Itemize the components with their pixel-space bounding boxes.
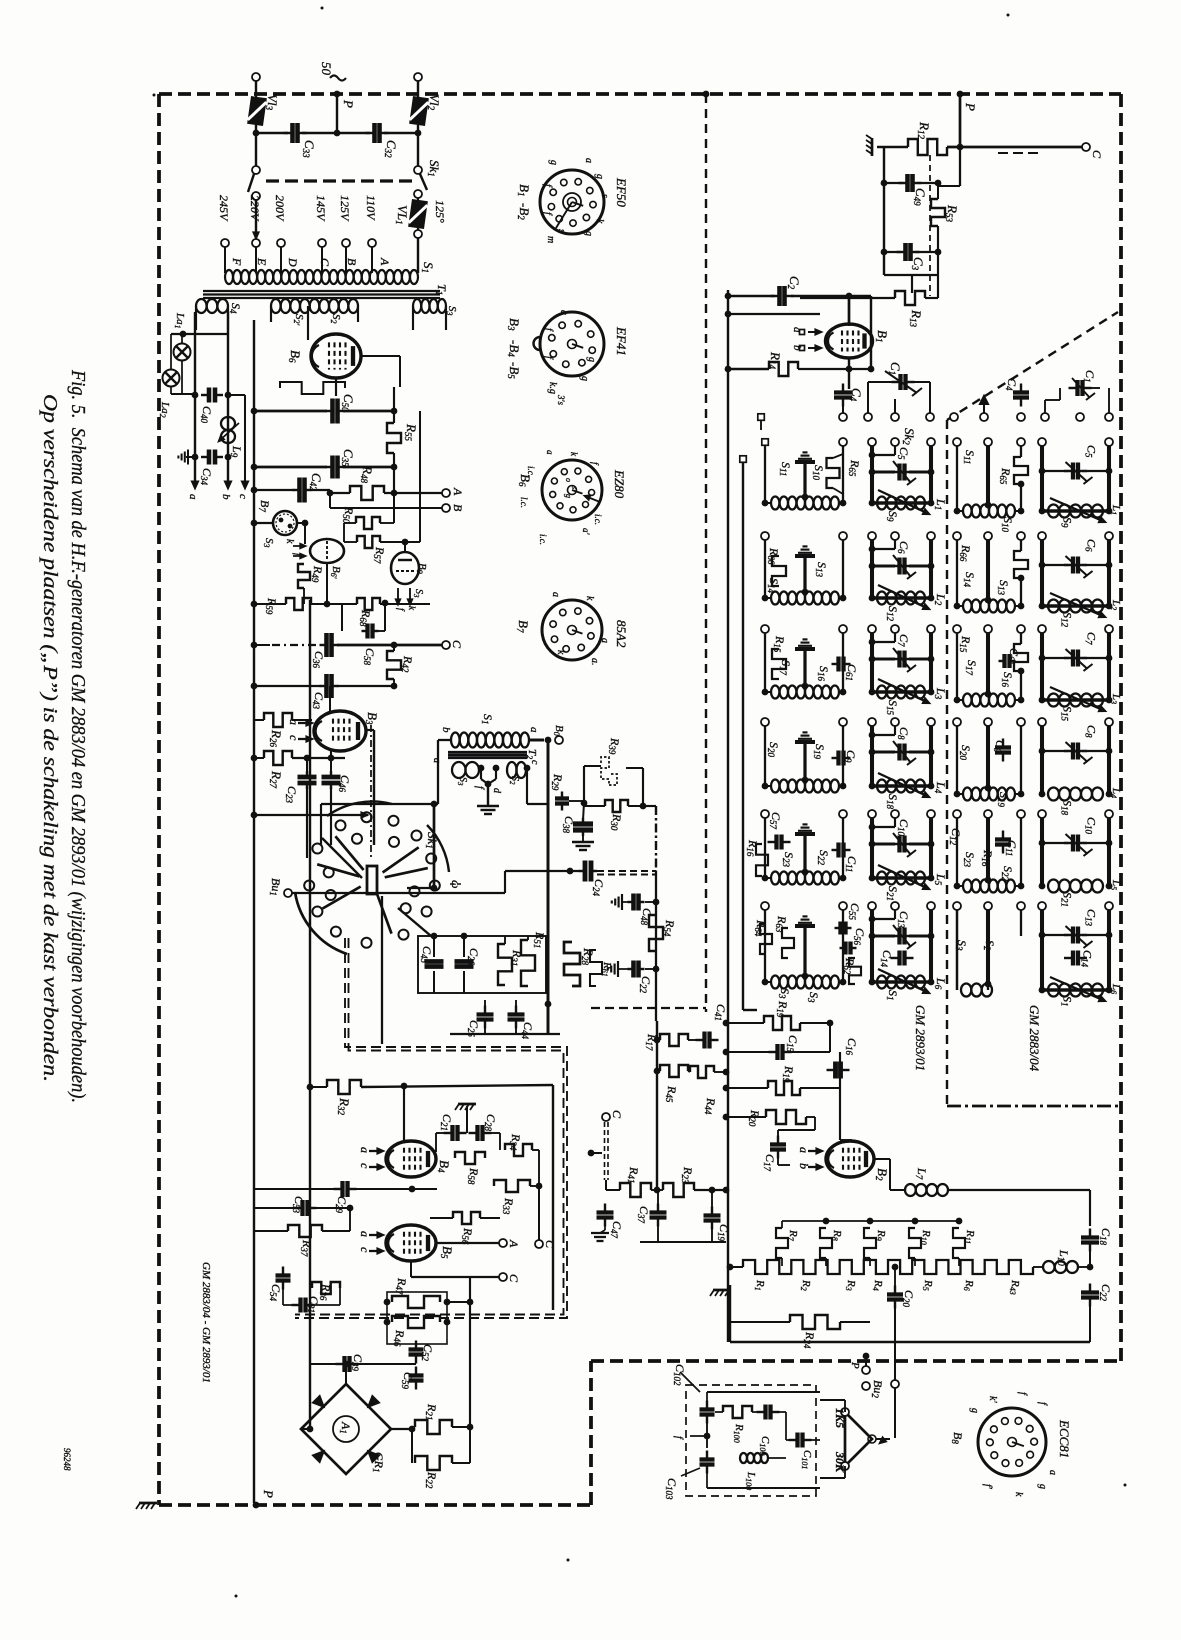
svg-text:a: a [287,719,301,725]
svg-text:a: a [431,758,442,763]
svg-text:125V: 125V [338,195,352,222]
svg-text:s: s [599,194,610,198]
svg-text:a: a [791,327,803,333]
svg-text:b: b [797,1163,811,1169]
svg-text:k: k [584,596,595,601]
svg-text:a: a [797,1147,811,1153]
svg-text:g: g [594,174,605,179]
svg-text:C: C [543,1240,557,1249]
svg-text:ECC81: ECC81 [1057,1419,1072,1458]
svg-text:C: C [610,1110,624,1119]
svg-text:50: 50 [319,62,334,76]
svg-text:C: C [450,640,464,649]
svg-text:k: k [1013,1492,1024,1497]
svg-text:g: g [548,160,559,165]
svg-text:a: a [545,450,555,455]
svg-text:o: o [564,478,573,482]
svg-text:i.c.: i.c. [593,514,603,525]
svg-text:85A2: 85A2 [614,620,629,648]
svg-text:P: P [341,99,356,108]
svg-text:c: c [237,494,249,499]
svg-text:P: P [261,1489,276,1498]
svg-text:C: C [1090,150,1104,159]
svg-text:96248: 96248 [62,1448,72,1471]
svg-text:c: c [358,1247,372,1253]
svg-text:GM 2893/01: GM 2893/01 [913,1005,928,1071]
svg-text:GM 2883/04 - GM 2893/01: GM 2883/04 - GM 2893/01 [200,1262,212,1383]
svg-text:c: c [358,1163,372,1169]
svg-text:a′: a′ [581,528,591,536]
svg-text:b: b [440,727,452,733]
svg-text:b: b [791,345,803,351]
svg-text:P: P [963,102,978,111]
svg-text:b: b [220,494,232,500]
svg-text:a: a [528,727,540,733]
svg-text:220V: 220V [248,195,262,222]
svg-text:B: B [451,504,465,512]
svg-text:a: a [599,638,610,643]
svg-text:s: s [556,229,567,233]
svg-text:a: a [1047,1470,1058,1475]
svg-text:c: c [529,760,540,765]
svg-text:a: a [558,310,569,315]
svg-text:D: D [286,257,300,267]
svg-text:g: g [969,1408,980,1413]
svg-text:EZ80: EZ80 [612,469,627,499]
svg-text:A: A [507,1239,521,1248]
svg-text:3′s: 3′s [556,394,566,405]
svg-text:EF50: EF50 [614,177,629,207]
svg-text:l.c.: l.c. [519,497,529,508]
svg-text:k: k [555,650,566,655]
svg-text:a: a [187,494,199,500]
svg-text:A: A [451,487,465,496]
svg-text:a: a [583,158,594,163]
svg-text:g: g [564,494,573,498]
svg-text:E: E [255,257,269,266]
svg-text:a: a [358,1231,372,1237]
svg-text:f′: f′ [982,1484,993,1490]
svg-text:a: a [358,1147,372,1153]
svg-text:C: C [507,1274,521,1283]
svg-text:k′: k′ [987,1396,998,1403]
svg-text:245V: 245V [217,195,231,222]
svg-text:125°: 125° [433,200,447,223]
svg-text:i.c.: i.c. [538,534,548,545]
svg-text:a.: a. [589,658,600,666]
svg-text:k.g: k.g [547,382,558,394]
svg-text:m: m [545,236,556,243]
svg-text:200V: 200V [273,195,287,222]
svg-text:c: c [287,735,301,741]
svg-text:k: k [594,219,605,224]
svg-text:Op verscheidene plaatsen („P”): Op verscheidene plaatsen („P”) is de sch… [39,394,61,1082]
svg-text:C: C [318,258,332,267]
svg-text:g: g [1037,1484,1048,1489]
svg-text:110V: 110V [364,195,378,221]
svg-text:P: P [849,1361,861,1369]
svg-text:F: F [230,257,244,266]
svg-text:s: s [570,486,579,489]
svg-text:Fig. 5. Schema van de H.F.-ge: Fig. 5. Schema van de H.F.-generatoren G… [67,369,89,1103]
svg-text:B: B [345,258,359,266]
svg-text:EF41: EF41 [614,326,629,356]
svg-text:g: g [586,357,597,362]
svg-text:g: g [583,231,594,236]
svg-text:i.c.: i.c. [526,466,536,477]
svg-text:A: A [378,257,392,266]
svg-text:GM 2883/04: GM 2883/04 [1027,1005,1042,1072]
svg-text:145V: 145V [314,195,328,222]
svg-text:a: a [550,592,561,597]
svg-text:k: k [284,539,295,544]
svg-text:g: g [579,376,590,381]
